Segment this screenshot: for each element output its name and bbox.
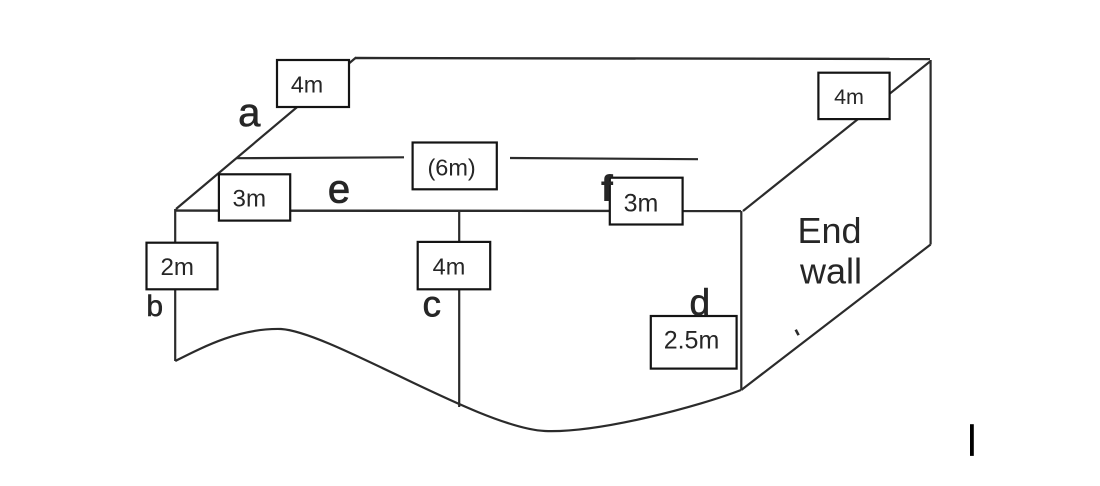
dimension box 4m (top-right slope) (818, 73, 889, 119)
wire: end wall bottom sloped edge (741, 245, 930, 391)
wire: vertical depth line c (458, 211, 460, 407)
wire: end wall top sloped edge (743, 62, 930, 212)
svg-text:3m: 3m (624, 189, 659, 217)
svg-text:4m: 4m (291, 71, 323, 97)
wire: front top edge (175, 209, 741, 212)
svg-text:End: End (797, 210, 861, 251)
dimension box 4m (top-left slope) (277, 60, 349, 107)
svg-text:c: c (422, 283, 441, 324)
svg-text:4m: 4m (433, 253, 466, 279)
dimension box 3m (left) (219, 174, 290, 220)
svg-text:d: d (690, 282, 711, 323)
dimension box 2m (left depth) (147, 243, 218, 290)
svg-text:2m: 2m (160, 254, 193, 281)
svg-text:b: b (146, 290, 163, 323)
dimension box 2.5m (right depth) (651, 316, 737, 369)
dimension box 3m (right) (610, 178, 683, 225)
dimension box 4m (middle depth) (418, 242, 491, 289)
svg-text:(6m): (6m) (427, 154, 475, 180)
dimension box (6m) centre line (413, 143, 497, 190)
svg-text:a: a (238, 91, 261, 135)
wire: left vertical edge (b) (174, 209, 176, 361)
svg-text:3m: 3m (233, 185, 266, 212)
wire: far top edge (355, 58, 930, 59)
text cursor bar (970, 424, 974, 456)
wire: far-right vertical edge (929, 60, 931, 245)
svg-text:wall: wall (799, 251, 862, 292)
svg-text:e: e (328, 168, 350, 212)
stray tick mark (796, 330, 799, 336)
svg-text:2.5m: 2.5m (664, 327, 720, 355)
wire: dashed centre line, left segment (236, 156, 404, 159)
wire: curved pool floor (175, 329, 741, 431)
svg-text:f: f (601, 168, 614, 209)
svg-text:4m: 4m (834, 85, 864, 109)
wire: vertical depth line d / end wall left edge (740, 211, 742, 390)
wire: sloped edge a (top-left) (176, 58, 356, 210)
wire: dashed centre line, right segment (510, 158, 698, 159)
